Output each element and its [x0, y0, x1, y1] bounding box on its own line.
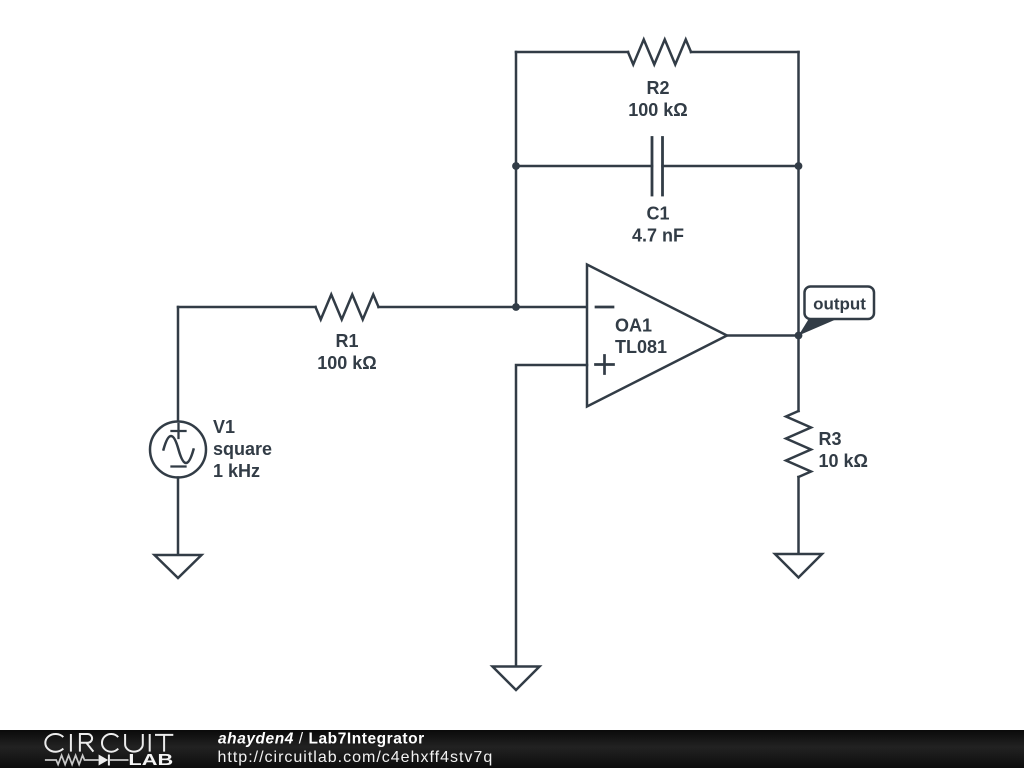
- resistor R1: [178, 295, 587, 320]
- svg-text:4.7 nF: 4.7 nF: [632, 226, 684, 246]
- ground (below R3): [775, 554, 822, 578]
- footer bar: [0, 730, 1024, 768]
- logo schematic squiggle with resistor and diode: [45, 755, 129, 766]
- junction node: output: [795, 332, 803, 340]
- svg-text:R1: R1: [335, 331, 358, 351]
- wire: V1 bottom lead: [177, 478, 180, 556]
- svg-text:V1: V1: [213, 417, 235, 437]
- svg-text:ahayden4 / Lab7Integrator: ahayden4 / Lab7Integrator: [218, 731, 425, 748]
- svg-text:square: square: [213, 439, 272, 459]
- ground (below V1): [155, 555, 202, 578]
- svg-text:C1: C1: [646, 204, 669, 224]
- voltage source V1: [150, 422, 206, 478]
- svg-text:output: output: [813, 295, 866, 314]
- node label: output callout: [799, 287, 875, 336]
- svg-text:OA1: OA1: [615, 316, 652, 336]
- svg-text:http://circuitlab.com/c4ehxff4: http://circuitlab.com/c4ehxff4stv7q: [218, 749, 494, 766]
- svg-text:1 kHz: 1 kHz: [213, 461, 260, 481]
- svg-text:LAB: LAB: [128, 752, 173, 768]
- logo text CIRCUIT (drawn thin letters): [45, 734, 173, 752]
- svg-text:TL081: TL081: [615, 337, 667, 357]
- svg-text:100 kΩ: 100 kΩ: [628, 100, 687, 120]
- junction node: inverting input / feedback: [512, 303, 520, 311]
- capacitor C1: [516, 138, 799, 196]
- resistor R3: [786, 411, 811, 554]
- svg-text:R3: R3: [819, 429, 842, 449]
- svg-text:10 kΩ: 10 kΩ: [819, 451, 868, 471]
- wire: feedback net right vertical (top corner down to R3): [797, 52, 800, 411]
- wire: V1 top lead: [177, 307, 180, 422]
- resistor R2: [516, 40, 799, 65]
- op-amp OA1: [587, 265, 727, 407]
- wire: non-inverting input to ground: [516, 365, 587, 667]
- wire: feedback net left vertical (top corner to inverting node): [515, 52, 518, 307]
- svg-text:100 kΩ: 100 kΩ: [317, 353, 376, 373]
- svg-text:R2: R2: [646, 78, 669, 98]
- junction node: C1 left: [512, 162, 520, 170]
- ground (below op-amp non-inverting input): [493, 667, 540, 691]
- wire: op-amp output: [727, 334, 799, 337]
- junction node: C1 right: [795, 162, 803, 170]
